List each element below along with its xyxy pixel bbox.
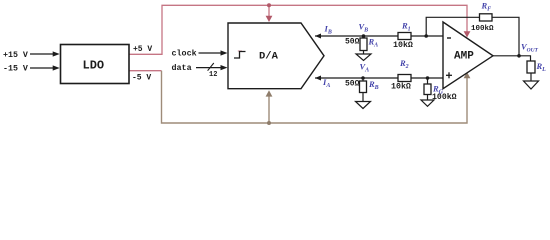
svg-text:data: data [172,63,192,73]
svg-text:10kΩ: 10kΩ [391,82,411,92]
svg-text:100kΩ: 100kΩ [471,25,494,33]
svg-text:50Ω: 50Ω [345,38,360,47]
svg-text:-5 V: -5 V [132,73,151,82]
svg-text:12: 12 [209,71,217,79]
svg-text:+15 V: +15 V [3,51,28,60]
svg-text:clock: clock [172,49,197,59]
svg-text:-15 V: -15 V [3,65,28,74]
svg-text:100kΩ: 100kΩ [432,92,457,102]
svg-text:50Ω: 50Ω [345,80,360,89]
svg-text:AMP: AMP [454,50,474,62]
svg-text:+5 V: +5 V [133,45,152,54]
svg-text:LDO: LDO [83,59,105,73]
svg-text:D/A: D/A [259,51,279,63]
svg-text:10kΩ: 10kΩ [393,40,413,50]
